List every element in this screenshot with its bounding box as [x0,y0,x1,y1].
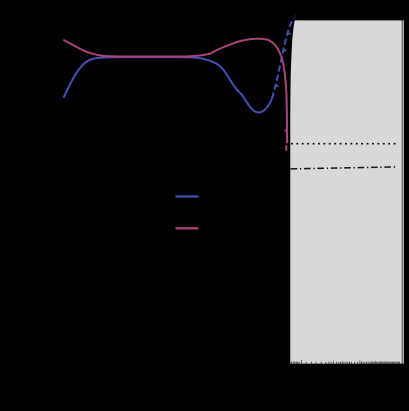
dash-dot reference line [291,167,397,169]
shaded exclusion region [290,20,404,363]
blue curve dashed extension [272,19,292,98]
legend blue sample [176,195,199,197]
purple arrow tick [285,130,287,132]
rug ticks along bottom of shaded region [292,360,400,364]
legend purple sample [176,227,199,229]
faint curve continuation above axes [294,14,297,20]
purple curve dashed tail [285,145,287,151]
dotted reference line [291,143,397,145]
blue curve solid part [64,57,272,112]
blue arrow tick 3 [287,33,290,34]
blue arrow tick 2 [283,50,286,51]
blue arrow tick 1 [275,86,278,87]
purple curve solid part [64,39,287,143]
right axis spine [401,20,403,363]
